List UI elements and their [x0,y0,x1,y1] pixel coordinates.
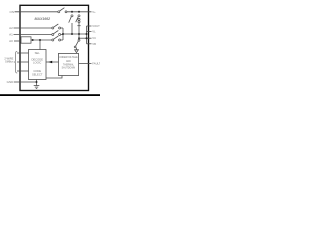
svg-text:UNDERVOLTAGE: UNDERVOLTAGE [59,56,78,59]
svg-text:CODE: CODE [33,69,41,73]
svg-text:SELECT: SELECT [32,73,43,77]
svg-text:A1: A1 [9,33,13,37]
svg-text:ON: ON [10,10,15,14]
svg-text:A2: A2 [9,26,13,30]
svg-text:GND: GND [7,80,15,84]
svg-text:VC: VC [92,36,96,40]
svg-text:SEL: SEL [35,51,41,55]
svg-text:FAULT: FAULT [92,61,100,65]
svg-text:THERMAL: THERMAL [63,63,75,66]
svg-text:AND: AND [66,60,71,63]
svg-text:VL: VL [92,30,96,34]
svg-text:VOUT: VOUT [92,24,100,28]
svg-text:SHUTDOWN: SHUTDOWN [62,68,76,70]
svg-text:SMBus: SMBus [5,60,14,64]
svg-text:A0: A0 [9,39,13,43]
svg-text:V+: V+ [92,10,96,14]
svg-text:MAX1662: MAX1662 [35,17,51,21]
svg-text:LOGIC: LOGIC [33,61,41,65]
svg-text:VB: VB [92,42,96,46]
